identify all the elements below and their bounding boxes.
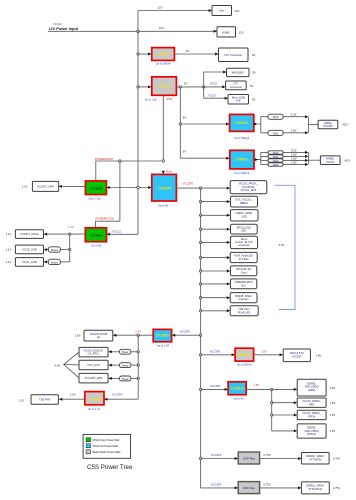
svg-text:LT3605-1: LT3605-1 bbox=[235, 158, 249, 162]
svg-text:VCC3P3: VCC3P3 bbox=[211, 482, 222, 486]
svg-text:LTC3406: LTC3406 bbox=[88, 398, 101, 402]
svg-text:POWERGOOD: POWERGOOD bbox=[95, 157, 113, 161]
svg-text:Bead: Bead bbox=[122, 377, 129, 381]
wire DDR Reg1 output bbox=[260, 458, 298, 460]
wire arrowhead col4 bbox=[227, 228, 230, 231]
wire bus to HSMC VCCIO bbox=[309, 159, 321, 161]
svg-text:Bead: Bead bbox=[51, 260, 58, 264]
node junction rail feed green1 bbox=[137, 186, 139, 188]
node junction col7 bbox=[199, 270, 201, 272]
svg-text:Up to 500mA: Up to 500mA bbox=[234, 171, 249, 175]
wire 9V output bbox=[174, 53, 215, 55]
load DDR3L VDD VDDQ HPS bbox=[297, 379, 326, 396]
svg-text:Gsensor: Gsensor bbox=[239, 297, 249, 301]
load MAX1693 bbox=[227, 68, 250, 76]
wire 1.8V output bbox=[254, 354, 280, 356]
svg-text:12V: 12V bbox=[235, 9, 240, 13]
load VGA Audio QSPI Flash bbox=[230, 252, 257, 262]
wire arrowhead into green2 bbox=[107, 233, 110, 236]
wire VCC3P3 rail down bbox=[200, 188, 202, 488]
svg-text:VCC3P3: VCC3P3 bbox=[210, 349, 221, 353]
wire arrowhead into VCC2P5_HPS bbox=[108, 377, 111, 380]
wire branch to HSMC bbox=[138, 30, 214, 32]
wire SW1 lower to bus bbox=[283, 155, 305, 157]
svg-text:ADJ: ADJ bbox=[345, 158, 351, 162]
svg-text:HPS: HPS bbox=[309, 402, 315, 406]
load VCCIO_DDR3 FPGA bbox=[297, 410, 326, 419]
load VCCINT_FPGA bbox=[15, 230, 43, 239]
regulator LTC3614 1.5V bbox=[228, 382, 246, 395]
wire arrowhead into LTC3614 bbox=[225, 388, 228, 391]
wire arrowhead col2 bbox=[227, 200, 230, 203]
svg-text:SW0: SW0 bbox=[273, 115, 279, 119]
wire arrowhead into LTC3606 bbox=[148, 186, 151, 189]
svg-text:Board Main Power Rails: Board Main Power Rails bbox=[93, 450, 122, 454]
load TSE PHY RJ45 LED bbox=[230, 306, 258, 316]
load VCCIO_FPGA VCCPGM VCCIO_HPS bbox=[230, 181, 267, 194]
wire arrowhead into column box1 bbox=[227, 187, 230, 190]
svg-text:1.1V: 1.1V bbox=[68, 225, 74, 229]
wire 1.5V output bbox=[246, 388, 294, 390]
node junction bead gxb bbox=[137, 351, 139, 353]
ferrite bead aux bbox=[120, 363, 131, 368]
legend green swatch bbox=[86, 438, 90, 442]
svg-text:Up to 8A: Up to 8A bbox=[91, 244, 101, 248]
wire branch col7 bbox=[201, 270, 227, 272]
svg-text:VCCIO_HPS: VCCIO_HPS bbox=[241, 188, 257, 192]
svg-text:VCC12: VCC12 bbox=[112, 229, 121, 233]
wire DDR Reg2 output bbox=[260, 487, 298, 489]
legend gray swatch bbox=[86, 450, 90, 454]
regulator LTC3886 1.1V FPGA (green box 2) bbox=[85, 228, 106, 242]
wire elbow to DDR Reg 2 bbox=[201, 487, 235, 489]
svg-text:0.75V: 0.75V bbox=[263, 482, 270, 486]
wire branch col8 bbox=[201, 283, 227, 285]
wire arrowhead vref fpga bbox=[298, 486, 301, 489]
wire 2.5V fanout lines bbox=[64, 352, 79, 378]
svg-text:Up to 500mA: Up to 500mA bbox=[234, 136, 249, 140]
switch SW3 lower group bbox=[268, 163, 283, 166]
svg-text:VCC3P3: VCC3P3 bbox=[180, 330, 191, 334]
wire arrowhead sw3l bbox=[305, 163, 308, 166]
svg-text:VCCINT_FPGA: VCCINT_FPGA bbox=[20, 232, 39, 236]
wire 5V rail down bbox=[179, 87, 181, 158]
wire bead1 to VCCE_GXB bbox=[47, 249, 49, 251]
wire bead hps to box bbox=[112, 377, 120, 379]
node junction col10 bbox=[199, 310, 201, 312]
svg-text:VCC3P3: VCC3P3 bbox=[211, 453, 222, 457]
svg-text:VTT(FPGA): VTT(FPGA) bbox=[308, 487, 322, 491]
svg-text:VCCINT_HPS: VCCINT_HPS bbox=[37, 185, 54, 189]
svg-text:(HPS): (HPS) bbox=[308, 388, 315, 392]
svg-text:FPGA Core Power Rail: FPGA Core Power Rail bbox=[93, 438, 120, 442]
wire bus vertical VCCPD bbox=[308, 117, 310, 133]
wire 12V input bbox=[48, 30, 138, 32]
wire arrowhead into VCCINT_FPGA bbox=[44, 233, 47, 236]
svg-text:0.75V: 0.75V bbox=[333, 456, 340, 460]
wire to bead gxb bbox=[131, 351, 138, 353]
svg-text:5V: 5V bbox=[252, 98, 256, 102]
node junction C 5V bbox=[179, 123, 181, 125]
wire 3.3V bracket bbox=[275, 185, 295, 309]
svg-text:1.8V: 1.8V bbox=[261, 349, 267, 353]
wire branch down to Micro USB bbox=[204, 87, 225, 98]
svg-text:LTC3605: LTC3605 bbox=[156, 334, 169, 338]
wire arrowhead sw1l bbox=[305, 155, 308, 158]
wire LT3605-1 lower output split bbox=[254, 152, 268, 164]
svg-text:811: 811 bbox=[241, 283, 246, 287]
svg-text:1.1V: 1.1V bbox=[6, 260, 12, 264]
wire arrowhead col10 bbox=[227, 309, 230, 312]
load EPCQ USD LED bbox=[231, 224, 258, 234]
switch SW1 lower group bbox=[268, 155, 283, 158]
svg-text:MAX1693: MAX1693 bbox=[232, 71, 244, 75]
wire branch ddr2 bbox=[272, 402, 294, 404]
node junction ddrreg1 bbox=[199, 457, 201, 459]
wire arrowhead ddrreg2 bbox=[235, 486, 238, 489]
svg-text:1.8V: 1.8V bbox=[316, 353, 322, 357]
load MAX-II 570 VCCINT bbox=[283, 349, 310, 362]
wire bus vertical VCCIO bbox=[308, 152, 310, 164]
wire SW3 lower to bus bbox=[283, 163, 305, 165]
svg-text:LTC3886: LTC3886 bbox=[90, 233, 103, 237]
regulator DDR Reg 1 bbox=[238, 452, 259, 464]
svg-text:9V: 9V bbox=[186, 49, 190, 53]
load DDR3L VDD VDDQ FPGA bbox=[297, 424, 326, 438]
node junction col2 bbox=[199, 200, 201, 202]
wire to DDR Reg 1 bbox=[201, 458, 235, 460]
wire arrowhead into LTC Connector 5V bbox=[222, 85, 225, 88]
wire bead aux to box bbox=[112, 364, 120, 366]
wire 5V output LT3980#2 bbox=[176, 86, 203, 88]
wire SW0 lower to bus bbox=[283, 151, 305, 153]
svg-text:12V: 12V bbox=[159, 26, 164, 30]
svg-text:Connector: Connector bbox=[230, 85, 243, 89]
svg-text:3.3V: 3.3V bbox=[291, 112, 297, 116]
wire to LT3605-1 1.8V bbox=[201, 354, 232, 356]
wire arrowhead into LT3980#1 bbox=[148, 53, 151, 56]
svg-text:VCC5: VCC5 bbox=[208, 94, 216, 98]
svg-text:LT3605-1: LT3605-1 bbox=[238, 353, 252, 357]
wire arrowhead sw0l bbox=[305, 151, 308, 154]
wire branch ddr3 bbox=[272, 414, 294, 416]
regulator LTC3606 3.3V main bbox=[152, 174, 177, 201]
wire arrowhead into LTC3605 bbox=[172, 334, 175, 337]
wire branch col3 bbox=[201, 214, 227, 216]
svg-text:1.5V: 1.5V bbox=[330, 429, 336, 433]
svg-text:LT3605-1: LT3605-1 bbox=[235, 121, 249, 125]
wire branch col9 bbox=[201, 297, 227, 299]
svg-text:Up to 1.5A: Up to 1.5A bbox=[88, 196, 101, 200]
svg-text:C5S Power Tree: C5S Power Tree bbox=[87, 464, 133, 471]
wire branch col10 bbox=[201, 310, 227, 312]
svg-text:VCCPD: VCCPD bbox=[323, 124, 332, 128]
node junction col5 bbox=[199, 241, 201, 243]
svg-text:12V Power Input: 12V Power Input bbox=[49, 27, 79, 31]
wire arrowhead into LTC Connector bbox=[215, 53, 218, 56]
wire arrowhead into DDR3L HPS bbox=[294, 388, 297, 391]
node junction powergood drop bbox=[119, 160, 121, 162]
svg-text:RUN: RUN bbox=[167, 97, 173, 101]
node junction 2.5V rail bbox=[137, 334, 139, 336]
ferrite bead 2 bbox=[48, 259, 60, 264]
load VCCPD VCCB bbox=[84, 330, 113, 341]
svg-text:Up to 1.1A: Up to 1.1A bbox=[88, 407, 101, 411]
node junction B 5V bbox=[203, 86, 205, 88]
wire SW0 to bus bbox=[283, 116, 305, 118]
wire LT3605-1 upper output split bbox=[258, 117, 269, 133]
wire arrowhead col6 bbox=[227, 256, 230, 259]
switch SW0 upper group bbox=[268, 114, 283, 119]
load LTC Connector 9V bbox=[219, 48, 249, 62]
wire arrowhead into VCCH_GXB bbox=[108, 350, 111, 353]
wire POWERGOOD horizontal bbox=[96, 161, 164, 181]
wire branch col2 bbox=[201, 201, 227, 203]
wire 5V rail lower elbow to LT3605-1 lower bbox=[180, 157, 226, 159]
node junction col6 bbox=[199, 256, 201, 258]
load HSMC VCCPD bbox=[318, 120, 338, 129]
wire 2.5V rail down bbox=[137, 335, 139, 399]
svg-text:CA_FPLL: CA_FPLL bbox=[88, 352, 100, 356]
svg-text:5V: 5V bbox=[184, 82, 188, 86]
wire arrowhead split lower bbox=[255, 158, 258, 161]
node junction col8 bbox=[199, 283, 201, 285]
wire arrowhead ddr3 bbox=[294, 414, 297, 417]
svg-text:VCC_AUX: VCC_AUX bbox=[87, 363, 100, 367]
wire elbow to bead2 bbox=[60, 261, 69, 263]
node junction 1.5V branch bbox=[199, 388, 201, 390]
wire branch col6 bbox=[201, 257, 227, 259]
svg-text:LT3980: LT3980 bbox=[158, 52, 169, 56]
regulator LTC3406 1.2V bbox=[85, 392, 104, 405]
svg-text:1.2V: 1.2V bbox=[70, 393, 76, 397]
wire arrowhead into MAX1693 bbox=[223, 71, 226, 74]
node junction A 5V bbox=[179, 86, 181, 88]
svg-text:DDR Reg: DDR Reg bbox=[243, 457, 255, 461]
legend box bbox=[83, 434, 131, 458]
wire arrowhead into MAX-II bbox=[280, 353, 283, 356]
svg-text:1.5V: 1.5V bbox=[330, 413, 336, 417]
svg-text:SW1: SW1 bbox=[273, 155, 279, 159]
svg-text:2.5V: 2.5V bbox=[75, 334, 81, 338]
regulator LTC3605 2.5V bbox=[153, 329, 171, 341]
regulator LT3980 #2 5V bbox=[152, 77, 177, 96]
svg-text:VTT(HPS): VTT(HPS) bbox=[309, 458, 321, 462]
svg-text:VCCINT: VCCINT bbox=[292, 354, 302, 358]
svg-text:DDR Reg: DDR Reg bbox=[243, 486, 255, 490]
svg-text:RB013: RB013 bbox=[240, 201, 249, 205]
load VCC2P5_HPS bbox=[79, 373, 108, 383]
load DDR3L_VREF VTT HPS bbox=[301, 453, 329, 465]
node junction LT3980#2 branch bbox=[137, 86, 139, 88]
wire VCC3P3 output bbox=[176, 187, 226, 189]
ferrite bead hps bbox=[120, 376, 131, 381]
svg-text:3.3V: 3.3V bbox=[279, 243, 285, 247]
wire arrowhead vref hps bbox=[298, 457, 301, 460]
svg-text:Up to 4A: Up to 4A bbox=[234, 396, 244, 400]
load LTC Connector 5V bbox=[226, 81, 247, 90]
svg-text:LED: LED bbox=[241, 229, 246, 233]
load HSMC VCCIO bbox=[320, 156, 340, 165]
load VCCINT_HPS bbox=[32, 181, 58, 191]
load Si5338 Si502 Gsensor bbox=[230, 293, 257, 303]
wire arrowhead run into LTC3606 bbox=[162, 171, 165, 174]
wire rail to LTC3605 bbox=[175, 334, 201, 336]
load Fan bbox=[212, 6, 232, 16]
node junction 1.8V branch bbox=[199, 354, 201, 356]
svg-text:RUN: RUN bbox=[166, 169, 172, 173]
wire branch ddr4 elbow bbox=[272, 430, 294, 432]
wire branch col4 bbox=[201, 228, 227, 230]
svg-text:Bead: Bead bbox=[51, 248, 58, 252]
svg-text:VCCL_GXB: VCCL_GXB bbox=[22, 260, 37, 264]
svg-text:ADJ: ADJ bbox=[343, 123, 349, 127]
svg-text:all: all bbox=[97, 335, 100, 339]
svg-text:5V: 5V bbox=[253, 71, 257, 75]
svg-text:SW3: SW3 bbox=[273, 163, 279, 167]
load Micro USB A-B bbox=[228, 95, 249, 105]
load CPU 1M SD Card bbox=[230, 266, 256, 276]
load Temp sensor IR LTC connector bbox=[230, 236, 257, 248]
svg-text:VCC2P5: VCC2P5 bbox=[112, 393, 123, 397]
load VCC_AUX bbox=[79, 360, 108, 370]
svg-text:5V: 5V bbox=[250, 84, 254, 88]
wire 1.1V rail down bbox=[69, 234, 71, 262]
svg-text:0.75V: 0.75V bbox=[333, 486, 340, 490]
switch SW2 lower group bbox=[268, 159, 283, 162]
node junction 1.1V bbox=[69, 233, 71, 235]
switch SW1 upper group bbox=[268, 130, 283, 135]
wire arrowhead SW0 bus bbox=[305, 115, 308, 118]
load HSMC 12V bbox=[217, 27, 236, 37]
svg-text:LTC3614: LTC3614 bbox=[231, 386, 244, 390]
svg-text:FPGA I/O Power Rails: FPGA I/O Power Rails bbox=[93, 444, 119, 448]
node junction LT3980#1 branch bbox=[137, 53, 139, 55]
node junction VCC3P3 top bbox=[199, 187, 201, 189]
ferrite bead 1 bbox=[48, 247, 60, 252]
svg-text:12V: 12V bbox=[158, 5, 163, 9]
wire arrowhead into green1 right bbox=[106, 186, 109, 189]
node junction bead1 bbox=[69, 248, 71, 250]
wire branch to Fan bbox=[138, 10, 209, 12]
svg-text:1.1V: 1.1V bbox=[22, 185, 28, 189]
svg-text:Bead: Bead bbox=[122, 350, 129, 354]
svg-text:VCCIO: VCCIO bbox=[326, 160, 335, 164]
wire SW2 lower to bus bbox=[283, 159, 305, 161]
wire 1.5V rail down bbox=[271, 389, 273, 431]
regulator DDR Reg 2 bbox=[238, 482, 259, 494]
svg-text:1.5V: 1.5V bbox=[330, 386, 336, 390]
regulator LT3605-1 VCCPD adj bbox=[230, 114, 254, 131]
wire to LTC3614 bbox=[201, 388, 225, 390]
svg-text:PI Flash: PI Flash bbox=[239, 257, 249, 261]
wire arrowhead col7 bbox=[227, 270, 230, 273]
node junction ddr3 bbox=[271, 414, 273, 416]
wire bus to HSMC VCCPD bbox=[309, 124, 319, 126]
svg-text:SW1: SW1 bbox=[273, 131, 279, 135]
svg-text:0.75V: 0.75V bbox=[263, 453, 270, 457]
svg-text:Card: Card bbox=[241, 270, 247, 274]
svg-text:2.5V: 2.5V bbox=[135, 330, 141, 334]
svg-text:LTC Connector: LTC Connector bbox=[224, 53, 242, 57]
svg-text:VCC3P3: VCC3P3 bbox=[183, 181, 194, 185]
svg-text:1.1V: 1.1V bbox=[6, 248, 12, 252]
svg-text:LED: LED bbox=[242, 214, 247, 218]
svg-text:VCC3P3: VCC3P3 bbox=[210, 384, 221, 388]
svg-text:1.1V: 1.1V bbox=[6, 232, 12, 236]
load TSE PHY bbox=[31, 395, 58, 404]
node junction col4 bbox=[199, 228, 201, 230]
svg-text:12V: 12V bbox=[239, 31, 244, 35]
svg-text:Up to 500mA: Up to 500mA bbox=[237, 362, 252, 366]
wire arrowhead into Micro USB bbox=[225, 97, 228, 100]
wire arrowhead into VCCINT_HPS bbox=[59, 185, 62, 188]
svg-text:1.5V: 1.5V bbox=[330, 401, 336, 405]
wire bead2 to VCCL_GXB bbox=[47, 261, 49, 263]
wire to bead aux bbox=[131, 364, 138, 366]
svg-text:Up to 1.5A: Up to 1.5A bbox=[145, 98, 158, 102]
wire arrowhead fan bbox=[209, 9, 212, 12]
wire arrowhead hsmc bbox=[214, 30, 217, 33]
wire arrowhead into LT3980#2 bbox=[148, 85, 151, 88]
wire branch col5 bbox=[201, 241, 227, 243]
wire to bead hps bbox=[131, 377, 138, 379]
wire arrowhead ddr4 bbox=[294, 429, 297, 432]
svg-text:Bead: Bead bbox=[122, 364, 129, 368]
load VCCH_GXB VCCA_FPLL bbox=[79, 347, 108, 357]
wire arrowhead into LT3605-1 upper bbox=[226, 123, 229, 126]
wire arrowhead into TSE PHY bbox=[59, 398, 62, 401]
svg-text:VCC2P5_HPS: VCC2P5_HPS bbox=[85, 376, 103, 380]
svg-text:SW0: SW0 bbox=[273, 151, 279, 155]
node junction col9 bbox=[199, 297, 201, 299]
load USB2500 MAX811 bbox=[230, 279, 256, 289]
svg-text:connector: connector bbox=[238, 243, 250, 247]
svg-text:FPGA: FPGA bbox=[308, 415, 316, 419]
ferrite bead gxb bbox=[120, 349, 131, 354]
svg-text:5V: 5V bbox=[183, 150, 187, 154]
wire arrowhead split upper bbox=[254, 123, 257, 126]
load VCCE_GXB bbox=[15, 245, 43, 254]
wire 12V elbow into green2 bbox=[110, 233, 138, 235]
wire arrowhead ddr2 bbox=[294, 401, 297, 404]
regulator LT3980 #1 9V bbox=[152, 48, 175, 61]
svg-text:Up to 6A: Up to 6A bbox=[158, 203, 168, 207]
node junction 2.5V branch bbox=[199, 334, 201, 336]
svg-text:2.5V: 2.5V bbox=[291, 128, 297, 132]
load HSMC HDMI LED bbox=[230, 210, 258, 221]
svg-text:VCCE_GXB: VCCE_GXB bbox=[22, 247, 37, 251]
svg-text:5V: 5V bbox=[183, 116, 187, 120]
wire arrowhead col3 bbox=[227, 214, 230, 217]
wire green2 output bbox=[47, 233, 86, 235]
node junction bead hps bbox=[137, 377, 139, 379]
node junction ddr2 bbox=[271, 402, 273, 404]
wire SW1 to bus bbox=[283, 132, 305, 134]
svg-text:Up to 1.5A: Up to 1.5A bbox=[157, 343, 170, 347]
wire green1 output to VCCINT_HPS bbox=[63, 185, 86, 187]
wire bead gxb to box bbox=[112, 351, 120, 353]
node junction 1.5V fan bbox=[271, 388, 273, 390]
svg-text:A-B: A-B bbox=[236, 99, 241, 103]
wire arrowhead into VCCE_GXB bbox=[44, 248, 47, 251]
wire to bead1 bbox=[60, 249, 69, 251]
regulator LTC3886 1.1V HPS (green box 1) bbox=[85, 181, 106, 195]
svg-text:(FPGA): (FPGA) bbox=[307, 432, 316, 436]
wire to LT3605-1 upper bbox=[180, 123, 226, 125]
wire arrowhead into VCCPD bbox=[113, 334, 116, 337]
wire 12V to green1 and LTC3606 bbox=[106, 187, 148, 189]
